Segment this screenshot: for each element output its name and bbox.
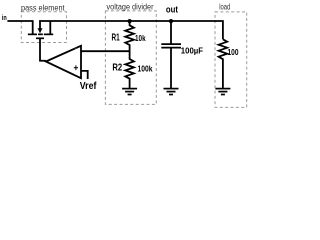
- svg-text:voltage divider: voltage divider: [107, 2, 154, 11]
- svg-text:100: 100: [228, 47, 239, 57]
- svg-text:100k: 100k: [138, 64, 153, 74]
- svg-text:load: load: [219, 2, 230, 11]
- svg-text:in: in: [2, 13, 7, 22]
- svg-text:pass element: pass element: [21, 3, 65, 12]
- svg-text:Vref: Vref: [80, 81, 97, 92]
- svg-text:100µF: 100µF: [181, 46, 203, 56]
- svg-text:R2: R2: [112, 62, 122, 73]
- svg-text:10k: 10k: [135, 33, 146, 43]
- svg-text:out: out: [166, 4, 178, 14]
- svg-text:R1: R1: [112, 33, 120, 44]
